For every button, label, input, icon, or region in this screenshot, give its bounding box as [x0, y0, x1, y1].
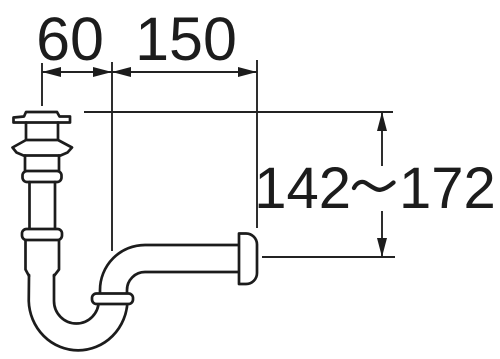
- svg-text:172: 172: [399, 156, 496, 221]
- svg-text:60: 60: [36, 5, 104, 73]
- svg-text:150: 150: [135, 5, 237, 73]
- svg-text:142: 142: [254, 156, 351, 221]
